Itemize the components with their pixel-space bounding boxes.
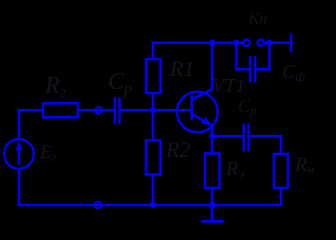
wire <box>211 188 214 205</box>
resistor Rn <box>274 154 288 188</box>
capacitor Cf left lead <box>236 43 249 70</box>
label Eg <box>39 142 57 164</box>
label Re <box>225 158 244 182</box>
svg-text:VT1: VT1 <box>212 75 245 97</box>
label Rn <box>294 154 314 178</box>
label Rg <box>44 73 66 101</box>
wire <box>152 110 155 140</box>
ground <box>201 205 224 221</box>
node switch right junction <box>266 40 272 46</box>
svg-text:R2: R2 <box>165 137 190 162</box>
transistor VT1 emitter <box>193 114 213 136</box>
wire <box>78 109 114 112</box>
resistor R1 <box>146 59 161 93</box>
wire <box>211 136 214 153</box>
source Eg arrow <box>16 141 22 164</box>
node base junction <box>150 107 156 113</box>
transistor VT1 circle <box>177 92 218 133</box>
transistor VT1 collector <box>193 43 213 99</box>
label Cf <box>282 61 305 85</box>
wire <box>152 175 155 206</box>
wire <box>250 136 281 154</box>
node ground junction <box>209 202 216 209</box>
resistor Rg <box>43 103 78 117</box>
switch SA1 contact right <box>258 40 264 46</box>
wire <box>212 135 242 138</box>
node R2 bottom junction <box>150 202 156 208</box>
transistor VT1 base bar <box>190 95 193 119</box>
svg-text:R1: R1 <box>169 56 194 81</box>
node collector-rail junction <box>209 40 215 46</box>
switch SA1 contact left <box>243 40 249 46</box>
wire bottom rail <box>19 169 281 205</box>
wire base line <box>121 109 191 112</box>
wire <box>152 93 155 110</box>
capacitor Cf right lead <box>256 43 269 70</box>
label VT1 <box>212 75 245 97</box>
node switch left junction <box>233 40 239 46</box>
input terminal top <box>95 107 102 114</box>
resistor Re <box>205 154 220 189</box>
label Cp <box>108 69 132 97</box>
resistor R2 <box>146 141 161 175</box>
input terminal bottom <box>95 202 102 209</box>
label R1 <box>169 56 194 81</box>
wire <box>265 42 290 45</box>
label R2 <box>165 137 190 162</box>
capacitor Cf plates <box>250 56 255 82</box>
label C2 <box>238 96 257 118</box>
node emitter junction <box>209 133 215 139</box>
wire <box>19 110 43 139</box>
label Kn <box>248 11 268 28</box>
source Eg circle <box>4 139 34 169</box>
capacitor C2 plates <box>244 123 249 151</box>
svg-text:Кн: Кн <box>248 11 268 28</box>
wire <box>153 43 243 59</box>
terminal X1 <box>290 34 293 53</box>
capacitor Cp1 plates <box>115 97 120 124</box>
